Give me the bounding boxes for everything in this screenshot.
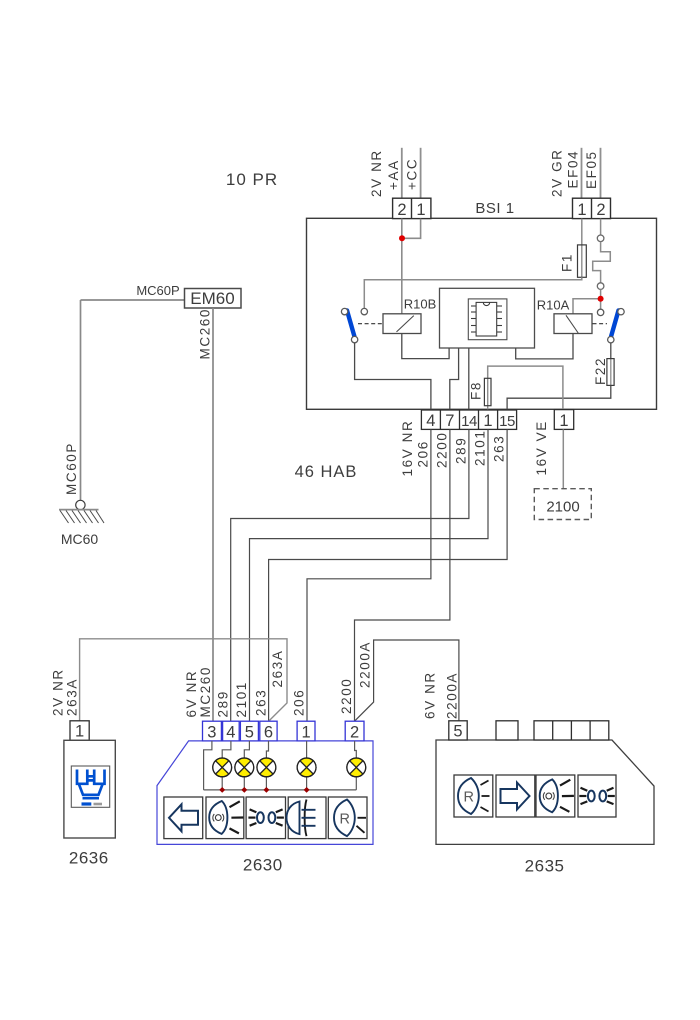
svg-text:MC260: MC260: [198, 666, 213, 718]
svg-text:206: 206: [416, 440, 431, 467]
svg-text:F8: F8: [468, 381, 483, 400]
icon small lamps: [248, 809, 284, 825]
lamp L5: [347, 758, 366, 777]
wire MC60P vertical: [80, 300, 82, 501]
svg-text:7: 7: [445, 412, 454, 430]
svg-text:2200: 2200: [339, 678, 354, 714]
svg-text:6V NR: 6V NR: [184, 670, 199, 718]
wire F22 top: [610, 343, 612, 359]
svg-text:2101: 2101: [473, 430, 488, 466]
svg-text:2100: 2100: [546, 499, 579, 516]
wire MC60P horizontal: [81, 299, 185, 301]
icon arrow left: [169, 804, 198, 831]
svg-text:2V NR: 2V NR: [369, 149, 384, 197]
relay R10B: [383, 314, 421, 334]
svg-text:10 PR: 10 PR: [226, 170, 278, 189]
wire 16V VE to 2100: [562, 429, 564, 488]
svg-text:MC260: MC260: [198, 308, 213, 360]
connector EM60: [185, 289, 242, 309]
svg-text:+AA: +AA: [386, 159, 401, 190]
svg-text:263A: 263A: [64, 678, 79, 716]
svg-text:1: 1: [577, 201, 586, 219]
svg-text:16V NR: 16V NR: [400, 420, 415, 477]
component 2636 box: [64, 740, 115, 838]
wire EF04: [581, 148, 583, 199]
junction dot right: [598, 296, 604, 302]
svg-text:F1: F1: [560, 253, 575, 272]
icon arrow right: [501, 783, 530, 810]
wire 2200A: [355, 640, 459, 721]
shunt under pin2: [600, 219, 602, 235]
switch left: [358, 323, 383, 325]
svg-text:2200A: 2200A: [444, 672, 459, 719]
icon small lamps (2635): [579, 788, 615, 804]
lamp L1: [213, 758, 232, 777]
svg-text:1: 1: [559, 412, 568, 430]
svg-text:2: 2: [350, 724, 359, 742]
svg-text:+CC: +CC: [405, 158, 420, 190]
component 2630 outline: [157, 741, 373, 845]
internal wires 2630: [204, 741, 357, 790]
svg-text:1: 1: [416, 201, 425, 219]
junction diamonds: [219, 787, 309, 793]
svg-text:MC60: MC60: [61, 531, 99, 547]
fuse F1: [581, 245, 583, 277]
wire F22 to pin15: [507, 385, 611, 410]
wire 2101: [250, 429, 489, 721]
junction dot: [399, 235, 405, 241]
lamp L3: [257, 758, 276, 777]
svg-text:MC60P: MC60P: [64, 442, 79, 495]
icon boxes 2635: [454, 775, 616, 817]
svg-text:2200: 2200: [434, 432, 449, 468]
svg-text:2V NR: 2V NR: [51, 668, 66, 716]
svg-text:2636: 2636: [69, 849, 109, 868]
wire IC to R10A bottom: [516, 334, 573, 359]
wire IC to pin7: [450, 348, 459, 410]
IC inner box: [468, 299, 507, 340]
svg-text:4: 4: [426, 412, 435, 430]
icon reverse R: [334, 800, 366, 837]
svg-text:2: 2: [397, 201, 406, 219]
connector cells 2635: [449, 721, 609, 740]
wire F1 drop: [581, 219, 583, 245]
svg-text:2101: 2101: [234, 681, 249, 717]
svg-text:289: 289: [454, 437, 469, 464]
svg-text:R: R: [339, 812, 349, 828]
svg-text:MC60P: MC60P: [136, 283, 179, 298]
svg-text:289: 289: [215, 690, 230, 717]
svg-text:5: 5: [245, 724, 254, 742]
svg-text:BSI 1: BSI 1: [475, 200, 514, 217]
svg-text:6V NR: 6V NR: [423, 671, 438, 719]
icon reverse R (2635): [458, 778, 490, 814]
svg-text:R10A: R10A: [537, 298, 570, 313]
lamp L4: [297, 758, 316, 777]
wire R10B bottom to IC: [402, 334, 449, 359]
icon boxes 2630: [164, 797, 367, 839]
svg-text:206: 206: [292, 689, 307, 716]
relay R10A: [554, 314, 592, 334]
svg-text:EM60: EM60: [190, 289, 234, 308]
wire IC to pin14: [468, 348, 470, 410]
svg-text:2200A: 2200A: [357, 641, 372, 688]
svg-text:15: 15: [499, 413, 515, 430]
svg-text:2: 2: [596, 201, 605, 219]
ECU box BSI1: [307, 218, 657, 409]
svg-text:EF04: EF04: [566, 150, 581, 189]
connector 4 7 14 1 15: [421, 410, 516, 429]
wire 206: [307, 429, 431, 721]
fuse F22: [610, 359, 612, 386]
wire R10A coil top: [573, 299, 598, 314]
component 2635 outline: [436, 740, 654, 844]
wire 263: [269, 429, 508, 721]
connector cells 2630: [203, 721, 365, 741]
svg-text:2635: 2635: [525, 857, 565, 876]
lamp L2: [235, 758, 254, 777]
svg-text:2630: 2630: [243, 856, 283, 875]
wire MC260: [212, 308, 214, 721]
IC module outer box: [440, 288, 535, 348]
svg-text:1: 1: [75, 723, 84, 741]
wire 2200: [355, 429, 450, 721]
wire F8 branch: [488, 366, 563, 410]
icon headlight: [209, 801, 243, 834]
svg-text:4: 4: [226, 724, 235, 742]
svg-text:263: 263: [253, 689, 268, 716]
switch right: [593, 323, 608, 325]
svg-text:263: 263: [492, 435, 507, 462]
svg-text:3: 3: [207, 724, 216, 742]
svg-text:6: 6: [264, 724, 273, 742]
svg-text:2V GR: 2V GR: [550, 148, 565, 197]
wire pin1 jog: [403, 219, 421, 239]
svg-text:EF05: EF05: [584, 150, 599, 189]
wire left switch to pin4: [355, 343, 431, 410]
svg-text:16V VE: 16V VE: [534, 420, 549, 475]
IC chip: [471, 302, 502, 336]
wire +CC: [420, 148, 422, 199]
wire 289: [231, 429, 469, 721]
wire F1 to left contact: [364, 277, 582, 308]
wire pin2 to R10B: [401, 219, 403, 314]
icon headlight (2635): [540, 779, 574, 812]
svg-text:1: 1: [302, 724, 311, 742]
fuse F8: [487, 378, 489, 410]
wire 263A: [80, 639, 287, 721]
connector cell 2636: [70, 721, 89, 741]
connector 2|1 top left: [393, 198, 431, 218]
wire +AA: [401, 148, 403, 199]
ground MC60: [76, 500, 85, 509]
icon fog: [287, 802, 300, 835]
svg-text:F22: F22: [593, 357, 608, 385]
svg-text:5: 5: [453, 723, 462, 741]
wire EF05: [600, 148, 602, 199]
svg-text:1: 1: [483, 412, 492, 430]
connector 1 (16V VE): [554, 410, 573, 430]
svg-text:14: 14: [461, 413, 477, 430]
icon box 2636: [71, 766, 109, 807]
svg-text:R10B: R10B: [404, 297, 437, 312]
svg-text:R: R: [463, 790, 473, 806]
svg-text:263A: 263A: [270, 650, 285, 688]
component 2100 dashed: [534, 489, 591, 520]
connector 1|2 top right: [573, 198, 611, 218]
svg-text:46 HAB: 46 HAB: [295, 463, 358, 481]
icon towbar socket: [77, 770, 105, 799]
